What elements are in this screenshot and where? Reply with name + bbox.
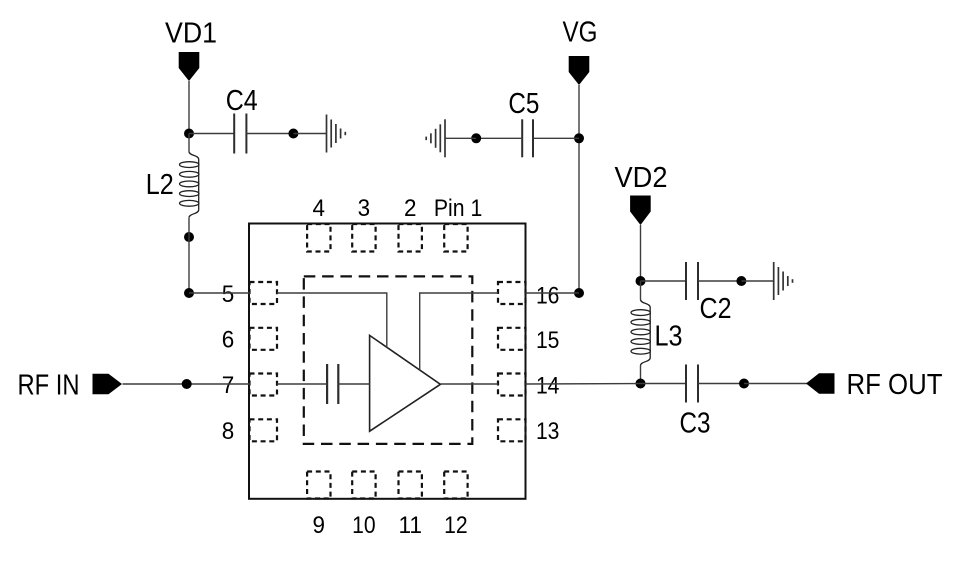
wire RF IN to pin 7: [123, 383, 251, 385]
wire L2 to pin5 node: [188, 218, 190, 293]
capacitor C4: [234, 114, 246, 154]
wire VD1 arrow to node: [188, 81, 190, 134]
pin 14 label: [535, 376, 561, 395]
pin 7 label: [221, 375, 236, 394]
svg-text:14: 14: [536, 373, 560, 400]
pin 16 label: [535, 286, 561, 305]
node C3 output side: [739, 379, 749, 389]
IC outer body: [249, 224, 526, 499]
VD1 supply arrow: [179, 52, 200, 81]
wire node to C4: [189, 133, 234, 135]
pin 7 pad: [250, 374, 278, 396]
wire C2 to ground node: [698, 280, 741, 282]
pin 15 pad: [498, 328, 526, 350]
node VD1/C4/L2 junction: [184, 129, 194, 139]
amplifier U1: [370, 335, 441, 431]
pin 5 label: [221, 284, 236, 303]
svg-text:RF OUT: RF OUT: [847, 369, 943, 401]
wire pin16 to amplifier bias: [420, 293, 498, 370]
wire node to C5: [533, 137, 579, 139]
svg-text:L3: L3: [655, 321, 683, 353]
svg-text:VG: VG: [563, 17, 598, 49]
svg-text:2: 2: [404, 195, 417, 222]
node L3 output junction: [636, 379, 646, 389]
wire node to ground: [741, 280, 773, 282]
node pin16 junction: [574, 288, 584, 298]
svg-text:C3: C3: [680, 408, 711, 440]
inductor L2: [189, 151, 199, 217]
IC die paddle (inner dashed): [304, 276, 473, 444]
node pin5 junction: [184, 288, 194, 298]
node C5 ground side: [471, 133, 481, 143]
node on RF IN wire: [182, 379, 192, 389]
ground (C4): [327, 115, 346, 153]
wire VG arrow to pin16: [578, 85, 580, 293]
pin 3 pad: [352, 224, 375, 252]
wire node to C2: [641, 280, 687, 282]
wire node to ground: [293, 133, 326, 135]
node below L2: [184, 232, 194, 242]
svg-text:3: 3: [358, 195, 371, 222]
svg-text:10: 10: [352, 512, 376, 539]
capacitor C3: [686, 365, 698, 403]
wire amplifier output to pin14: [440, 383, 498, 385]
RF OUT port arrow: [806, 373, 835, 394]
svg-text:16: 16: [536, 283, 560, 310]
wire node to L3: [640, 281, 642, 299]
pin 14 pad: [498, 374, 526, 396]
pin 4 pad: [307, 224, 330, 252]
svg-text:VD1: VD1: [165, 18, 217, 50]
wire node to RF OUT arrow: [744, 383, 807, 385]
svg-text:L2: L2: [146, 169, 174, 201]
VD2 supply arrow: [630, 196, 651, 226]
svg-text:C4: C4: [226, 85, 258, 117]
svg-text:Pin 1: Pin 1: [434, 195, 482, 222]
internal capacitor C1: [327, 364, 338, 404]
pin 13 pad: [498, 419, 526, 441]
wire pin 14 to L3 node: [526, 383, 641, 386]
wire C3 to node: [698, 383, 744, 385]
pin 8 pad: [250, 419, 278, 441]
wire L3 node to C3: [641, 383, 687, 385]
pin 6 pad: [250, 328, 278, 350]
svg-text:VD2: VD2: [615, 162, 668, 194]
pin 1 pad: [444, 224, 467, 252]
VG supply arrow: [569, 56, 590, 85]
svg-text:12: 12: [444, 512, 468, 539]
node VD2/C2/L3 junction: [636, 276, 646, 286]
wire node to pin 5: [189, 292, 250, 294]
wire VD2 arrow to node: [640, 225, 642, 281]
wire pin7 to internal capacitor: [277, 383, 327, 385]
ground (C2): [774, 262, 793, 300]
inductor L3: [641, 299, 651, 365]
wire L3 to output line: [640, 366, 642, 384]
node C4 ground side: [288, 129, 298, 139]
wire pin 16 to VG: [526, 292, 580, 294]
node VG/C5 junction: [574, 133, 584, 143]
svg-text:C2: C2: [700, 293, 732, 325]
svg-text:11: 11: [398, 512, 422, 539]
svg-text:7: 7: [222, 372, 235, 399]
pin 16 pad: [498, 282, 526, 304]
svg-text:5: 5: [222, 281, 235, 308]
pin 5 pad: [250, 282, 278, 304]
pin 12 pad: [444, 472, 467, 499]
pin 10 pad: [352, 472, 375, 499]
ground (C5): [426, 119, 445, 157]
wire pin5 to amplifier bias: [277, 293, 387, 348]
pin 9 pad: [307, 472, 330, 499]
svg-text:13: 13: [536, 418, 560, 445]
svg-text:4: 4: [313, 195, 326, 222]
wire C4 to ground node: [246, 133, 293, 135]
capacitor C2: [686, 262, 698, 300]
svg-text:15: 15: [536, 327, 560, 354]
node C2 ground side: [736, 276, 746, 286]
svg-text:RF IN: RF IN: [18, 370, 80, 402]
wire node to L2: [188, 134, 190, 152]
capacitor C5: [522, 119, 533, 157]
pin 11 pad: [399, 472, 422, 499]
pin 2 pad: [399, 224, 422, 252]
svg-text:8: 8: [222, 418, 235, 445]
RF IN port arrow: [93, 374, 123, 395]
svg-text:6: 6: [222, 327, 235, 354]
svg-text:9: 9: [313, 512, 326, 539]
wire internal capacitor to amplifier input: [338, 383, 369, 385]
wire node to ground: [445, 137, 476, 139]
wire C5 to ground node: [476, 137, 522, 139]
svg-text:C5: C5: [508, 88, 539, 120]
